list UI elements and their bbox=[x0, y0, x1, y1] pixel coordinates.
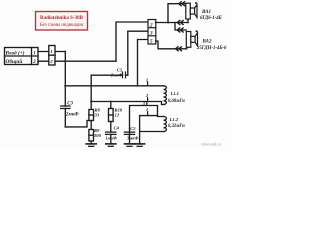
wire BA2 minus bbox=[156, 41, 187, 49]
capacitor C4 bbox=[106, 132, 116, 144]
svg-text:33: 33 bbox=[94, 113, 100, 118]
svg-text:0,68мГн: 0,68мГн bbox=[168, 99, 185, 104]
board contact 1 bbox=[146, 77, 148, 86]
svg-text:1: 1 bbox=[50, 49, 52, 54]
connector X1 table bbox=[5, 48, 39, 65]
svg-text:2: 2 bbox=[149, 22, 153, 28]
svg-text:L1.2: L1.2 bbox=[169, 117, 179, 122]
capacitor C5 bbox=[91, 72, 128, 78]
contact chevrons BA2 minus bbox=[176, 47, 182, 51]
svg-text:L1.1: L1.1 bbox=[170, 91, 179, 96]
board contact 4 bbox=[146, 107, 148, 116]
node R8 top bbox=[90, 100, 92, 102]
svg-text:Вход (+): Вход (+) bbox=[5, 49, 25, 56]
svg-text:12: 12 bbox=[115, 113, 120, 118]
ground C6 bbox=[125, 144, 135, 146]
wire line1 to coil bbox=[65, 85, 163, 87]
wire R8 to R9 bbox=[90, 121, 92, 130]
wire input+ vertical bbox=[64, 52, 66, 107]
svg-text:100: 100 bbox=[94, 133, 102, 138]
svg-text:Radiotehnika S-30B: Radiotehnika S-30B bbox=[40, 16, 84, 21]
node input junction bbox=[64, 85, 66, 87]
polarity dot BA2 bbox=[196, 30, 198, 32]
capacitor C6 bbox=[124, 132, 134, 144]
contact chevrons BA1 minus bbox=[177, 21, 183, 25]
wire row2 to X2 bbox=[38, 60, 116, 62]
svg-text:5: 5 bbox=[150, 39, 153, 45]
wire lineA bbox=[91, 102, 163, 105]
wire cell3 bbox=[128, 31, 148, 75]
svg-text:2мкФ: 2мкФ bbox=[65, 112, 79, 117]
title box bbox=[36, 12, 88, 31]
svg-text:vdsound.ru: vdsound.ru bbox=[201, 141, 222, 146]
node R10 top bbox=[110, 101, 112, 103]
wire BA2 plus bbox=[175, 23, 186, 31]
ground R9 bbox=[86, 144, 96, 146]
board contact 2 bbox=[145, 93, 149, 102]
wire BA1 plus bbox=[168, 4, 186, 23]
wire lineC bbox=[140, 116, 158, 144]
svg-text:С4: С4 bbox=[114, 126, 120, 131]
speaker BA2 bbox=[186, 32, 197, 48]
speaker BA1 bbox=[186, 3, 197, 19]
svg-text:С5: С5 bbox=[117, 67, 123, 72]
svg-text:2мкФ: 2мкФ bbox=[110, 73, 123, 78]
resistor R10 bbox=[109, 102, 114, 133]
svg-text:2: 2 bbox=[145, 93, 149, 98]
wire L1.2 bottom return bbox=[140, 131, 164, 133]
svg-text:3: 3 bbox=[149, 31, 153, 37]
node line1/cell5 bbox=[137, 85, 139, 87]
wire C3 to R8/R9 junction bbox=[65, 121, 91, 127]
wire lineB with C6 drop bbox=[130, 106, 164, 136]
wire row1 to X2 bbox=[38, 51, 65, 53]
svg-text:3мкФ: 3мкФ bbox=[126, 136, 139, 141]
contact chevrons BA2 plus bbox=[177, 28, 183, 32]
contact chevrons BA1 plus bbox=[179, 2, 185, 6]
wire BA1 minus drop bbox=[187, 19, 189, 23]
wire cell2 to speakers bbox=[156, 22, 189, 24]
capacitor C3 bbox=[61, 106, 70, 127]
svg-text:1: 1 bbox=[146, 107, 148, 112]
svg-text:Общий: Общий bbox=[6, 58, 23, 65]
inductor L1.1 bbox=[164, 86, 167, 105]
inductor L1.2 bbox=[164, 117, 167, 132]
wire tweeter bus x91 bbox=[90, 75, 92, 109]
connector X3 block bbox=[148, 20, 156, 45]
svg-text:Без схемы индикации: Без схемы индикации bbox=[40, 23, 84, 28]
wire R9 to rail bbox=[90, 141, 92, 144]
svg-text:1: 1 bbox=[33, 51, 35, 56]
svg-text:С5: С5 bbox=[130, 126, 136, 131]
node BA1 feed bbox=[167, 22, 169, 24]
ground L return bbox=[135, 144, 145, 146]
wire common up to cell2 bbox=[116, 22, 148, 61]
resistor R8 bbox=[89, 110, 94, 121]
svg-text:ВА1: ВА1 bbox=[201, 10, 211, 15]
ground C4 bbox=[106, 144, 116, 146]
wire cell5 bbox=[138, 40, 149, 86]
svg-text:2: 2 bbox=[32, 60, 36, 65]
connector X2 plug bbox=[49, 46, 55, 66]
svg-text:6ГД6-1-4Б: 6ГД6-1-4Б bbox=[200, 16, 222, 21]
svg-text:1: 1 bbox=[146, 77, 148, 82]
svg-text:ВА2: ВА2 bbox=[202, 40, 212, 45]
svg-text:1мкФ: 1мкФ bbox=[105, 136, 117, 141]
svg-text:25ГДН-1-4Б-6: 25ГДН-1-4Б-6 bbox=[196, 46, 227, 51]
board contact 3 bbox=[142, 101, 147, 106]
svg-text:0,32мГн: 0,32мГн bbox=[168, 124, 185, 129]
svg-text:С3: С3 bbox=[67, 101, 73, 106]
polarity dot BA1 bbox=[195, 2, 197, 4]
resistor R9 bbox=[89, 130, 94, 142]
